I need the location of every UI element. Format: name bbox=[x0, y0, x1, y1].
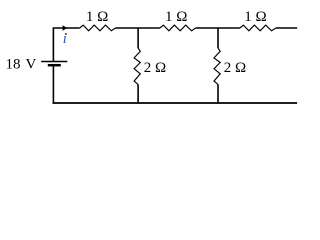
label current i dot bbox=[65, 33, 67, 35]
svg-text:1 Ω: 1 Ω bbox=[86, 9, 108, 25]
battery V1 long plate bbox=[41, 61, 67, 63]
svg-text:1 Ω: 1 Ω bbox=[244, 9, 266, 25]
wire shunt2 bottom lead bbox=[217, 84, 219, 103]
resistor R2 1ohm zigzag bbox=[160, 25, 196, 31]
wire between R2 and R3 bbox=[196, 27, 240, 29]
svg-text:1 Ω: 1 Ω bbox=[165, 9, 187, 25]
resistor Rs1 2ohm zigzag bbox=[134, 48, 140, 84]
svg-text:2 Ω: 2 Ω bbox=[144, 60, 166, 76]
wire between R1 and R2 bbox=[115, 27, 159, 29]
resistor R3 1ohm zigzag bbox=[240, 25, 276, 31]
wire shunt2 top lead bbox=[217, 28, 219, 49]
svg-text:18 V: 18 V bbox=[5, 57, 36, 73]
wire battery to bottom corner bbox=[52, 66, 54, 103]
wire top-left corner segment bbox=[53, 28, 79, 61]
svg-text:2 Ω: 2 Ω bbox=[224, 60, 246, 76]
battery V1 short plate bbox=[48, 64, 61, 67]
wire top-right end bbox=[276, 27, 297, 29]
resistor Rs2 2ohm zigzag bbox=[214, 48, 220, 84]
resistor R1 1ohm zigzag bbox=[80, 25, 116, 31]
current arrow bbox=[63, 25, 67, 31]
wire bottom bbox=[53, 102, 298, 104]
wire shunt1 top lead bbox=[137, 28, 139, 49]
wire shunt1 bottom lead bbox=[137, 84, 139, 103]
